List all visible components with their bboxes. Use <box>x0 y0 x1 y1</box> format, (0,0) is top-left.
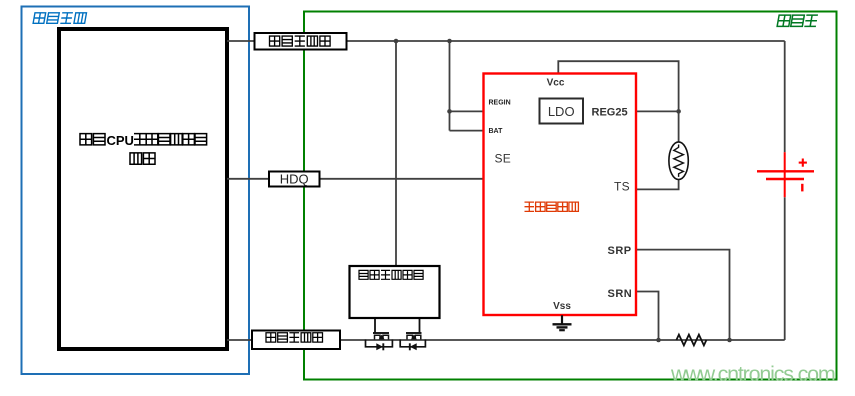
svg-text:SE: SE <box>495 152 512 166</box>
transistor Q2 (discharge FET with body diode) <box>400 333 425 350</box>
wire: REG25 pin to thermistor net <box>636 110 679 112</box>
wire: thermistor bottom to TS pin <box>636 180 679 190</box>
junction top rail / protection <box>394 39 399 44</box>
junction REG25 / thermistor <box>676 109 681 114</box>
wire: top rail down to REGIN/BAT <box>449 41 451 131</box>
wire: CPU box to HDQ label <box>227 178 269 180</box>
wire: right vertical to battery + <box>784 41 786 152</box>
gas gauge label 气体压力表 <box>525 202 579 211</box>
wire: top net (battery positive rail) <box>347 40 785 42</box>
junction SRP / bottom rail <box>727 338 732 343</box>
svg-text:Vss: Vss <box>553 301 571 312</box>
svg-text:BAT: BAT <box>489 128 504 135</box>
protection IC label <box>359 270 423 279</box>
junction SRN / bottom rail <box>656 338 661 343</box>
net label box HDQ <box>269 172 320 187</box>
wire: CPU box to battery negative label <box>227 339 252 341</box>
transistor Q1 (charge FET with body diode) <box>366 333 393 350</box>
svg-text:SRN: SRN <box>608 288 633 300</box>
svg-text:CPU: CPU <box>107 133 134 148</box>
svg-text:SRP: SRP <box>608 245 632 257</box>
wire: Vcc net up and over to thermistor top <box>558 61 678 142</box>
wire: CPU box to battery positive label <box>227 40 255 42</box>
host CPU box label line2 <box>130 153 155 164</box>
battery BT1 <box>757 152 814 197</box>
wire: battery - down to bottom rail <box>784 197 786 340</box>
junction REGIN branch <box>447 109 452 114</box>
ground symbol at Vss <box>553 315 572 330</box>
host system frame 主机系统 <box>22 7 250 375</box>
wire: HDQ label to SE pin <box>320 178 484 180</box>
LDO block <box>540 99 584 124</box>
svg-text:Vcc: Vcc <box>547 78 565 89</box>
wire: bottom rail (battery negative) <box>340 339 785 341</box>
wire: top rail down to protection IC <box>395 41 397 266</box>
battery pack label 电池组 <box>777 15 818 26</box>
svg-text:TS: TS <box>614 180 630 194</box>
host CPU box 主机CPU或电源管理控制器 <box>59 29 227 349</box>
host CPU box label line1 <box>80 134 105 145</box>
wire: branch to BAT pin <box>450 130 484 132</box>
wire: branch to REGIN pin <box>450 110 484 112</box>
net label box 电池组阴极 (battery negative) <box>252 331 340 350</box>
junction top rail / REGIN <box>447 39 452 44</box>
battery pack frame 电池组 <box>304 12 837 380</box>
gas gauge IC U1 气体压力表 <box>484 74 637 316</box>
svg-text:REG25: REG25 <box>592 106 628 118</box>
svg-text:www.cntronics.com: www.cntronics.com <box>670 362 835 386</box>
thermistor RT1 <box>669 142 688 180</box>
wire: SRN pin to sense resistor left <box>636 292 659 341</box>
net label box 电池组阳极 (battery positive) <box>255 33 347 50</box>
wire: protection IC gate drive Q2 <box>419 318 421 333</box>
host system label 主机系统 <box>33 13 86 23</box>
wire: protection IC gate drive Q1 <box>374 318 376 333</box>
sense resistor R1 <box>676 335 706 346</box>
wire: SRP pin to sense resistor right <box>636 250 730 340</box>
protection IC box 保护集成电路 <box>350 266 440 318</box>
svg-text:HDQ: HDQ <box>280 172 309 187</box>
svg-text:REGIN: REGIN <box>489 100 511 107</box>
svg-text:LDO: LDO <box>548 104 575 119</box>
